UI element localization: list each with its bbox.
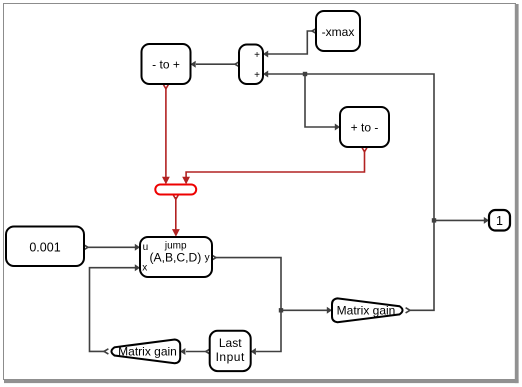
svg-text:+: + — [254, 70, 260, 81]
svg-text:y: y — [205, 252, 210, 263]
block "- to +" — [142, 44, 191, 84]
red wire "+ to -" output to Mux input 2 — [186, 147, 367, 178]
red wire Mux output to jump trigger input — [173, 195, 178, 230]
svg-text:Matrix gain: Matrix gain — [118, 345, 177, 359]
svg-text:jump: jump — [164, 240, 187, 251]
svg-text:Last: Last — [219, 336, 242, 350]
svg-text:u: u — [143, 242, 149, 253]
junction at branch to "+ to -" — [303, 72, 307, 76]
svg-text:Matrix gain: Matrix gain — [337, 304, 396, 318]
svg-text:Input: Input — [216, 350, 245, 364]
wire jump output y to Matrix gain (right) and Last Input — [212, 255, 327, 352]
svg-text:x: x — [142, 263, 147, 274]
block "+ to -" — [340, 107, 389, 147]
block Last Input — [210, 331, 251, 371]
wire 0.001 output to jump input u — [84, 245, 135, 250]
wire branch to "+ to -" input — [305, 74, 335, 127]
wire -xmax output to sum input 1 — [268, 28, 316, 54]
block Matrix gain (bottom, pointing left) — [111, 340, 180, 364]
svg-text:1: 1 — [496, 214, 503, 228]
svg-text:0.001: 0.001 — [29, 241, 60, 255]
block sum (mirrored, two + inputs) — [239, 45, 263, 85]
wire sum output to "- to +" input — [196, 62, 239, 67]
junction at branch to outport — [432, 218, 436, 222]
wire branch to outport 1 — [434, 219, 484, 221]
junction at branch to Matrix gain (right) — [279, 308, 283, 312]
svg-text:+ to -: + to - — [351, 121, 379, 135]
block jump (A,B,C,D) state-space — [140, 237, 212, 277]
block -xmax (constant) — [316, 11, 360, 51]
block outport 1 — [489, 210, 510, 231]
wire Last Input output to Matrix gain (bottom) — [186, 349, 210, 354]
block Mux (red highlighted) — [155, 185, 196, 195]
svg-text:+: + — [254, 50, 260, 61]
svg-text:-xmax: -xmax — [322, 25, 355, 39]
svg-text:(A,B,C,D): (A,B,C,D) — [150, 251, 202, 265]
svg-text:- to +: - to + — [152, 58, 180, 72]
block 0.001 (constant) — [6, 227, 84, 267]
wire Matrix gain (right) output feedback to sum input 2 — [268, 74, 434, 313]
red wire "- to +" output to Mux input 1 — [163, 84, 168, 178]
block Matrix gain (right, pointing right) — [332, 298, 403, 322]
wire Matrix gain (bottom) output to jump input x — [90, 268, 136, 354]
